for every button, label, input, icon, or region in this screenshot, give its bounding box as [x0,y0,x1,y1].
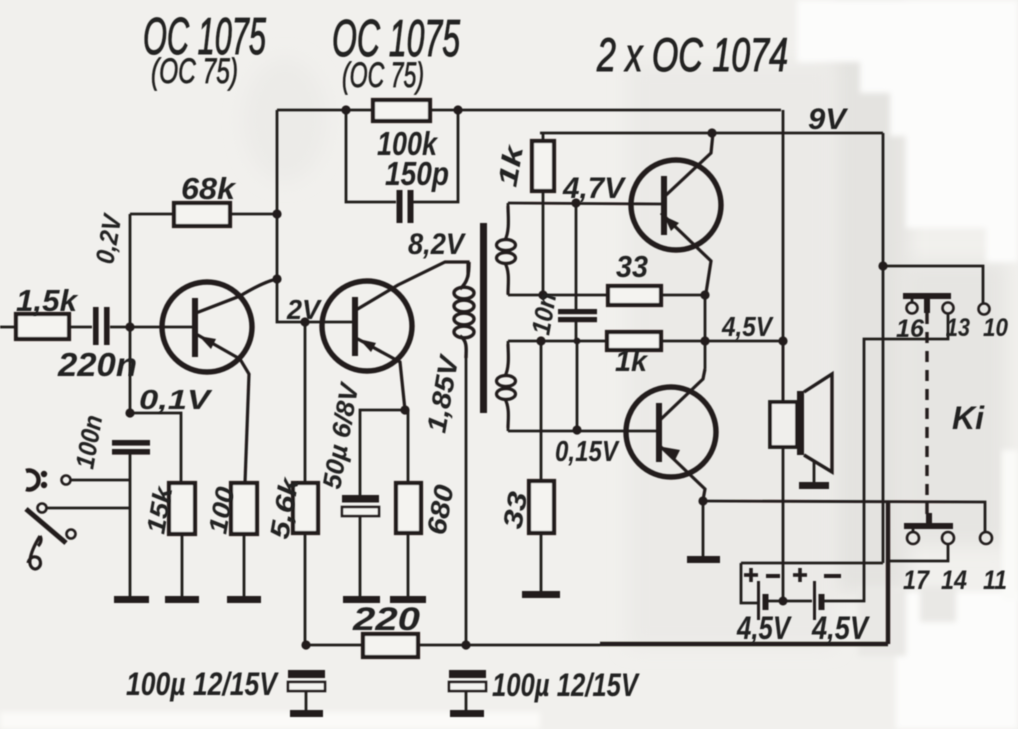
node 1k bottom [538,290,547,299]
ground 100u-2 [450,710,484,717]
transformer T1 secondary bottom coil [497,344,516,428]
wire input line [0,326,16,329]
terminal mic circle [62,476,71,485]
connector bridge stub top [924,299,930,313]
svg-text:0,1V: 0,1V [139,384,213,415]
battery plus sign 1 [744,568,758,582]
speaker LS cone [804,374,832,472]
capacitor C4 50u plate solid [342,495,379,503]
svg-text:1,5k: 1,5k [16,283,79,318]
resistor R11 1k horizontal [607,332,661,350]
switch contact circle B [67,530,76,539]
speaker LS frame [770,402,797,447]
wire speaker top lead [782,341,785,402]
svg-text:(OC 75): (OC 75) [151,52,238,91]
battery B1 plate short [763,594,769,610]
wire base line 0,15V [508,430,656,433]
white bottom right [896,592,1018,729]
wire node line 1k-h [508,340,607,343]
dashed link Ki [925,313,928,514]
gray tongue A [858,588,906,656]
wire 5,6k down [304,533,307,645]
mic symbol arc [26,471,39,490]
ground 680 [390,596,426,603]
wire speaker bottom lead [782,447,785,601]
node speaker top [778,336,787,345]
wire 100n down [129,454,132,597]
wire bottom rail left [306,644,363,647]
resistor R5 100k [373,100,430,121]
ground 15k [165,596,199,603]
node base T1 [125,322,134,331]
treble clef [28,536,41,569]
node 9V switch branch [878,261,887,270]
wire C1 to base node [110,326,192,329]
svg-text:100µ 12/15V: 100µ 12/15V [126,666,279,702]
switch lever [26,509,66,543]
wire 68k line left [130,213,174,216]
node 0,1V [125,408,134,417]
capacitor C3 150p [397,190,414,223]
svg-text:10: 10 [983,314,1008,342]
wire secondary bottom leads [507,341,510,348]
wire 10n to base line [576,341,579,430]
white right edge [1002,450,1018,600]
wire 1k top lead [542,133,545,141]
wire to contact 10 [883,266,983,303]
scan gray right mid [902,262,1006,546]
gray tongue B [920,586,956,622]
connector contact 10 [979,304,990,315]
wire 33b down [540,533,543,591]
wire base T2 [305,321,352,324]
wire 5,6k up [304,322,307,483]
node Q3 collector 9V [707,128,716,137]
wire vertical 68k branch [129,214,132,413]
node 33b top [536,336,545,345]
wire speaker cone ground lead [813,462,816,483]
wire feedback down right [782,110,785,402]
wire 100 down [243,534,246,597]
svg-text:9V: 9V [808,103,849,136]
wire 68k line right [230,213,277,216]
transformer T1 secondary top coil [497,206,516,294]
battery minus sign 1 [766,574,780,578]
wire 100u-2 down [465,691,468,710]
resistor R7 5,6k [293,483,318,533]
wire mic terminal [71,479,130,482]
svg-text:(OC 75): (OC 75) [342,56,424,95]
wire battery center [768,600,812,603]
resistor R4 100 [231,483,257,534]
svg-text:4,7V: 4,7V [562,172,627,205]
wire contact 13 to battery [823,314,948,601]
svg-text:Ki: Ki [952,400,985,436]
wire 10n lower lead [575,322,578,341]
wire 150p loop right [413,110,458,202]
connector bridge bar top [903,293,951,299]
scan gray center column [628,62,834,648]
node battery center tap [779,597,788,606]
wire feedback top left [277,109,373,112]
resistor R9 1k vertical [532,141,554,191]
ground 100u-1 [290,710,323,717]
node 0,15V [572,425,581,434]
capacitor C6 100u plate solid [449,670,486,678]
wire 15k down [181,534,184,597]
resistor R3 15k [169,483,195,534]
node 4,7V [571,198,580,207]
wire switch contact [47,507,130,510]
white bottom strip [0,712,540,729]
ground 100 [227,596,261,603]
node rail 4,5V [700,336,709,345]
connector contact 14 [942,532,954,544]
ground 33b [522,591,560,598]
capacitor C7 10n [558,309,597,322]
wire vertical interstage [277,110,305,322]
svg-text:2V: 2V [286,294,322,325]
white corner top right [797,0,1018,262]
battery minus sign 2 [824,574,841,578]
svg-text:2 x OC 1074: 2 x OC 1074 [596,28,788,81]
switch contact circle A [38,504,47,513]
wire 33 right lead [661,294,705,297]
node 100k left [341,105,350,114]
node Q1 collector [272,274,281,283]
svg-text:150p: 150p [385,155,449,192]
ground Q4 [687,556,720,563]
wire contact 17 stub [912,529,915,532]
transformer T1 core [480,223,487,413]
transistor Q4 OC1074 [626,369,716,500]
transistor Q3 OC1074 [631,133,721,293]
svg-text:4,5V: 4,5V [811,610,870,646]
wire contact 16 stub [911,299,914,303]
svg-text:16: 16 [896,315,925,343]
node 68k right [272,209,281,218]
wire emitter to 50u [360,410,405,495]
svg-text:11: 11 [983,565,1007,595]
resistor R12 33 bottom [529,481,554,533]
svg-text:220n: 220n [57,346,137,383]
resistor R6 680 [396,483,421,533]
resistor R8 220 [363,634,418,657]
transformer T1 primary coil [454,262,474,358]
wire feedback top right [430,109,781,112]
battery B2 plate short [819,594,825,610]
scan gray band right [831,0,908,594]
transistor Q1 OC1075 [162,279,277,483]
wire 100u-1 down [305,691,308,710]
wire 33b lead up [540,341,543,481]
capacitor C2 100n [112,440,150,455]
ground 50u [343,596,380,603]
wire R1 to C1 [69,326,92,329]
battery B1 plate long [757,581,760,620]
svg-text:17: 17 [903,565,931,595]
battery B2 plate long [813,581,816,620]
svg-text:14: 14 [941,565,967,595]
connector contact 11 [980,532,992,544]
ground input [114,596,149,603]
connector contact 16 [907,303,918,314]
svg-text:0,15V: 0,15V [555,436,620,468]
gray smudge under labels [243,58,327,182]
svg-text:100µ 12/15V: 100µ 12/15V [492,667,640,703]
node 100k right [453,105,462,114]
capacitor C1 220n [93,307,110,345]
connector contact 17 [907,532,919,544]
node 2V [300,317,309,326]
speaker LS driver bar [797,391,804,455]
svg-text:220: 220 [352,601,421,637]
wire 0,1V to 15k [130,413,181,483]
wire base line 4,7V [508,203,661,204]
node Q4 emitter [698,496,707,505]
mic symbol dots [41,471,47,488]
node 10n bottom [574,338,581,345]
svg-text:4,5V: 4,5V [736,610,792,646]
wire bottom rail mid [418,644,600,647]
wire border right thick [886,502,890,644]
wire secondary bottom lower lead [507,425,510,431]
node rail upper [700,290,709,299]
resistor R1 1,5k [16,314,69,339]
wire bottom rail thick [600,642,888,647]
svg-text:68k: 68k [181,171,237,206]
wire secondary top lower lead [507,290,510,295]
capacitor C5 100u plate hollow [288,682,325,691]
wire 680 down [407,533,410,597]
connector bridge stub bottom [926,513,932,523]
ground speaker [799,482,829,489]
resistor R2 68k [174,203,230,226]
wire emitter to 680 [407,410,410,483]
wire 150p loop [346,110,396,202]
node primary bottom rail [461,640,470,649]
battery bracket left [741,563,757,603]
wire 9V down right [882,133,885,563]
wire contact 14 to battery plus [886,544,948,561]
capacitor C6 100u plate hollow [449,682,486,691]
svg-text:13: 13 [946,314,970,342]
wire rail middle [704,295,707,369]
connector contact 13 [943,303,954,314]
wire 10n upper lead [575,203,578,310]
svg-text:33: 33 [497,489,533,531]
wire 1k-h right lead [661,340,783,343]
wire Q4 emitter ground lead [702,501,705,556]
wire output line to contact 11 [703,501,985,532]
wire primary bottom [465,356,468,645]
capacitor C5 100u plate solid [288,670,325,678]
connector bridge bar bottom [904,523,953,529]
wire 1k bottom lead [542,191,545,295]
resistor R10 33 [608,286,661,305]
battery plus sign 2 [793,568,807,582]
svg-text:33: 33 [616,249,648,284]
wire 9V rail [540,132,883,135]
capacitor C4 50u plate hollow [342,507,379,516]
svg-text:1k: 1k [615,345,648,378]
svg-text:4,5V: 4,5V [721,311,774,342]
battery top line [741,562,883,565]
wire secondary top leads [507,203,510,212]
wire 50u down [359,516,362,597]
node Q2 emitter 1,85V [400,405,409,414]
svg-text:8,2V: 8,2V [408,228,467,261]
wire node line 33 [508,294,608,297]
node 5,6k bottom [301,640,310,649]
transistor Q2 OC1075 [322,262,468,410]
